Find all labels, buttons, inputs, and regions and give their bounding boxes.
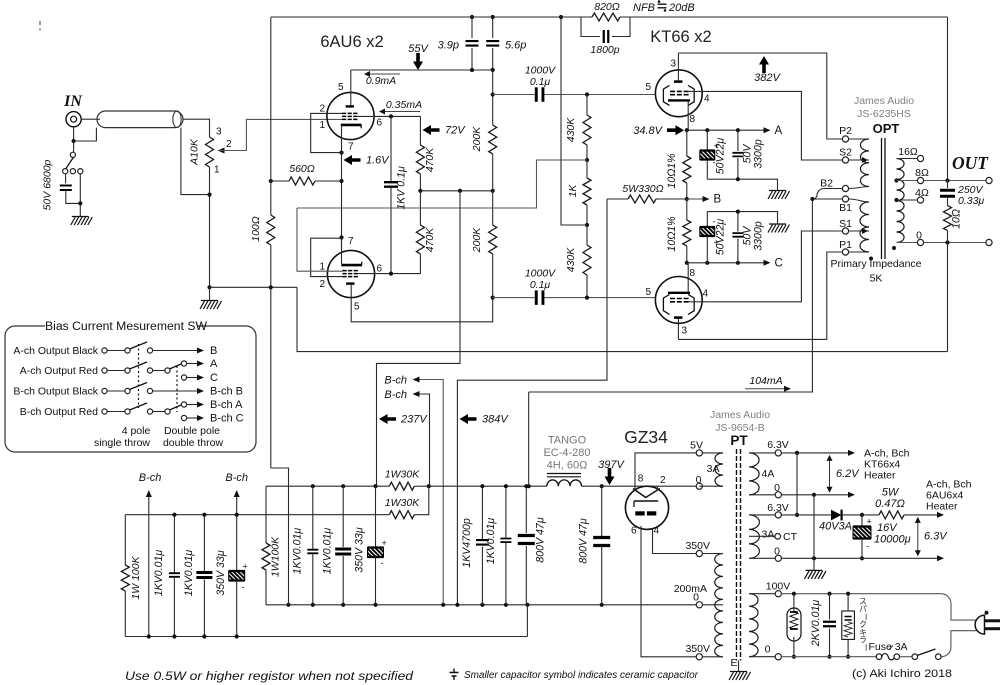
OPT secondary coil — [897, 159, 905, 243]
svg-text:C: C — [775, 258, 783, 270]
junction screen bypass — [389, 114, 393, 118]
svg-text:1W100K: 1W100K — [270, 536, 282, 577]
junction phasing link — [795, 513, 799, 517]
terminal OUT+ — [986, 177, 992, 183]
coil 6.3V-2 winding — [749, 515, 759, 558]
wire lamp bottom junction — [792, 655, 796, 659]
svg-text:2: 2 — [226, 139, 232, 150]
wire NFB drop — [947, 17, 949, 181]
wire 100R bottom — [270, 245, 272, 468]
svg-text:10Ω: 10Ω — [951, 209, 963, 229]
wire 55V plate line — [351, 69, 493, 71]
svg-text:6: 6 — [377, 264, 383, 275]
wire 6.3V-2 hot — [781, 514, 831, 516]
ground input switch — [72, 216, 89, 218]
wire V2 screen pin6 — [357, 273, 420, 275]
svg-text:430K: 430K — [565, 247, 577, 273]
svg-text:560Ω: 560Ω — [289, 163, 315, 175]
wire B-ch B+ link — [420, 394, 430, 486]
wire 100R top — [270, 17, 272, 215]
wire cap group upper to ground — [707, 179, 777, 190]
tube V3 KT66 upper envelope — [655, 70, 702, 117]
wire V2 plate down — [351, 285, 493, 322]
wire sleeve to shield — [74, 128, 97, 141]
junction 0 zobel — [945, 240, 949, 244]
svg-text:350V 33μ: 350V 33μ — [354, 527, 366, 572]
terminal 4R — [917, 197, 923, 203]
resistor 5W330R — [607, 198, 628, 200]
svg-text:double throw: double throw — [163, 437, 224, 449]
svg-text:CT: CT — [783, 531, 798, 543]
V5 cathode bar — [634, 500, 658, 502]
junction 3300p lower top — [736, 210, 740, 214]
junction 430K upper top — [585, 92, 589, 96]
svg-text:OPT: OPT — [873, 121, 900, 136]
svg-text:34.8V: 34.8V — [633, 125, 663, 137]
resistor 1W100K bank2 — [265, 486, 267, 543]
svg-text:4H, 60Ω: 4H, 60Ω — [547, 460, 588, 472]
shielded cable — [97, 111, 183, 128]
terminal 0 OPT — [917, 239, 923, 245]
RCA jack J1 — [66, 112, 81, 127]
rail bank1 ground — [125, 636, 527, 638]
svg-text:3: 3 — [682, 326, 688, 337]
svg-text:237V: 237V — [400, 414, 428, 426]
coil 6.3V-1 winding — [749, 453, 759, 495]
wire switch right contact down — [79, 174, 81, 216]
svg-text:8: 8 — [690, 114, 696, 125]
svg-text:3300p: 3300p — [753, 221, 765, 251]
svg-text:50V22μ: 50V22μ — [715, 138, 727, 175]
svg-text:350V: 350V — [685, 643, 710, 655]
svg-text:Smaller capacitor symbol indic: Smaller capacitor symbol indicates ceram… — [464, 670, 699, 681]
junction heater cold — [812, 493, 816, 497]
terminal 0 HV — [696, 602, 702, 608]
junction jack sleeve — [72, 139, 76, 143]
svg-text:B-ch Output Black: B-ch Output Black — [13, 386, 98, 398]
svg-text:P2: P2 — [839, 125, 852, 137]
switch S4 4-pole — [102, 409, 107, 414]
wire P2 to coil — [849, 138, 869, 140]
ground pot — [209, 287, 211, 300]
junction 560R right — [339, 179, 343, 183]
svg-text:800V 47μ: 800V 47μ — [535, 517, 547, 562]
capacitor 1800p — [581, 17, 600, 37]
junction lamp top — [792, 592, 796, 596]
svg-text:384V: 384V — [482, 414, 509, 426]
wire ground bus — [297, 287, 948, 351]
svg-text:A: A — [775, 125, 783, 137]
wire P1 to coil — [849, 251, 869, 253]
terminal 6.3V-2 — [775, 512, 781, 518]
svg-text:3: 3 — [670, 59, 676, 70]
arrow 0.35mA — [380, 111, 420, 113]
bias measurement switch box — [5, 326, 256, 452]
svg-text:2KV0.01μ: 2KV0.01μ — [810, 600, 822, 648]
arrow 72V — [423, 125, 440, 135]
svg-text:2: 2 — [660, 475, 666, 486]
capacitor 5.6p — [492, 17, 494, 38]
svg-text:1W 100K: 1W 100K — [130, 555, 142, 599]
svg-text:0.47Ω: 0.47Ω — [875, 498, 905, 510]
svg-text:KT66 x2: KT66 x2 — [650, 28, 711, 46]
svg-text:1K: 1K — [567, 184, 579, 198]
wire phasing link — [796, 453, 798, 515]
svg-text:6.3V: 6.3V — [767, 439, 789, 451]
svg-text:100Ω: 100Ω — [250, 216, 262, 242]
wire pin2 V5 — [657, 486, 659, 489]
svg-text:4: 4 — [654, 526, 660, 537]
pilot lamp — [787, 608, 801, 641]
arrow 0.9mA — [365, 73, 400, 75]
V1 grid dashes — [342, 112, 357, 114]
wire screen to 470K — [419, 116, 421, 145]
svg-text:5: 5 — [645, 287, 651, 298]
wire heater ground drop — [813, 495, 815, 570]
terminal B2 — [842, 185, 848, 191]
potentiometer A10K — [206, 137, 214, 167]
svg-text:GZ34: GZ34 — [624, 427, 668, 447]
svg-text:-: - — [866, 541, 869, 551]
resistor 820R — [592, 13, 620, 21]
svg-text:-: - — [242, 582, 245, 592]
resistor 10R zobel — [944, 206, 952, 231]
junction rail 200K — [491, 189, 495, 193]
svg-text:200mA: 200mA — [674, 583, 707, 595]
stray mark top left — [39, 21, 41, 25]
svg-text:1W30K: 1W30K — [385, 497, 420, 509]
V5 filament chevron — [633, 489, 660, 498]
wire 0 line — [897, 242, 986, 244]
capacitor 1KV0.01u bank2 ceramic — [312, 486, 314, 549]
svg-text:0.1μ: 0.1μ — [530, 76, 551, 88]
wire fuse to switch — [900, 656, 912, 658]
svg-text:4 pole: 4 pole — [122, 425, 151, 437]
svg-text:0.35mA: 0.35mA — [386, 99, 422, 111]
arrow B-ch 2 — [413, 391, 420, 397]
junction spark killer top — [846, 592, 850, 596]
junction 3300p upper — [736, 128, 740, 132]
svg-text:72V: 72V — [445, 125, 466, 137]
wire V2 grid feed — [297, 208, 343, 271]
svg-text:A-ch Output Black: A-ch Output Black — [13, 345, 98, 357]
terminal 0 100V — [775, 654, 781, 660]
arrow to B — [687, 198, 704, 200]
arrow 34.8V — [667, 125, 684, 135]
svg-text:10Ω1%: 10Ω1% — [666, 153, 678, 188]
junction V2 cathode top — [339, 235, 343, 239]
junction B+ node — [810, 197, 814, 201]
svg-text:B-ch: B-ch — [225, 472, 248, 484]
svg-text:James Audio: James Audio — [854, 95, 914, 107]
junction 0.01u rail — [504, 484, 508, 488]
svg-text:1KV0.01μ: 1KV0.01μ — [292, 528, 304, 575]
junction 800V47u second rail — [600, 484, 604, 488]
svg-text:1W30K: 1W30K — [385, 469, 420, 481]
resistor 560R — [289, 177, 315, 185]
svg-text:NFB: NFB — [633, 2, 655, 14]
svg-text:1000V: 1000V — [525, 65, 556, 77]
svg-text:0.1μ: 0.1μ — [530, 279, 551, 291]
svg-text:+: + — [867, 517, 872, 527]
arrow 397V — [605, 468, 615, 485]
wire divider tap to V2 grid — [297, 160, 587, 208]
wire 6.3V-1 heater hot — [781, 452, 849, 454]
wire coupling lower — [493, 297, 535, 299]
arrow 382V — [759, 56, 769, 73]
junction 8R tap — [894, 178, 898, 182]
junction bank1 gnd dots — [147, 634, 151, 638]
wire zobel to 0 — [947, 231, 949, 243]
svg-text:3A: 3A — [762, 529, 775, 541]
svg-text:Primary Impedance: Primary Impedance — [830, 258, 921, 270]
svg-text:200K: 200K — [471, 227, 483, 254]
svg-text:3300p: 3300p — [753, 139, 765, 169]
capacitor 800V47u first — [525, 486, 527, 533]
wire 237V riser — [377, 191, 461, 486]
wire jack to cable core — [81, 118, 100, 120]
svg-text:EC-4-280: EC-4-280 — [543, 447, 590, 459]
terminal B1 — [842, 196, 848, 202]
wire B1 to node — [812, 198, 842, 200]
V5 plates — [635, 511, 644, 515]
wire jack sleeve down — [73, 127, 75, 141]
wire pin8 V5 — [635, 453, 697, 491]
svg-text:single throw: single throw — [94, 437, 150, 449]
wire B+ riser — [529, 199, 813, 392]
ground PT earth — [738, 661, 740, 672]
svg-text:1KV4700p: 1KV4700p — [461, 518, 473, 568]
choke TANGO EC-4-280 — [547, 474, 581, 477]
svg-text:430K: 430K — [565, 117, 577, 143]
tube V5 GZ34 envelope — [625, 486, 668, 529]
junction divider tap — [585, 158, 589, 162]
arrow B-ch bank1 B+ — [236, 492, 238, 514]
arrow 1.6V — [344, 155, 361, 165]
terminal 16R — [917, 155, 923, 161]
wire V4 screen to S1 — [689, 301, 702, 303]
svg-text:5: 5 — [354, 302, 360, 313]
wire 470K to rail — [419, 174, 421, 191]
terminal S2 — [842, 157, 848, 163]
capacitor 50V 3300p lower — [737, 212, 739, 232]
junction diode out — [860, 513, 864, 517]
OPT core — [881, 138, 883, 259]
svg-text:5: 5 — [645, 82, 651, 93]
svg-text:A10K: A10K — [189, 138, 201, 166]
svg-text:B: B — [210, 345, 217, 357]
wire 8R line — [897, 180, 986, 182]
V3 grid dashes — [670, 90, 689, 92]
row2 DPDT — [153, 370, 165, 372]
wire S2 to coil — [849, 159, 869, 161]
capacitor 16V 10000u — [861, 515, 863, 527]
wire pin6 V5 to 350V lower — [641, 526, 697, 657]
wire V3 screen to S2 — [689, 90, 702, 92]
junction 560R left — [269, 179, 273, 183]
arrow to C — [764, 260, 771, 266]
V1 grid bracket pins 1-2 — [311, 113, 342, 152]
svg-text:C: C — [210, 372, 218, 384]
switch S2 4-pole — [102, 368, 107, 373]
junction 5.6p top — [491, 15, 495, 19]
wire B-ch gnd link bank1 — [148, 515, 150, 637]
V2 plate — [346, 282, 354, 284]
svg-text:-: - — [381, 558, 384, 568]
svg-text:A-ch Output Red: A-ch Output Red — [20, 365, 98, 377]
resistor 1W30K upper — [414, 485, 429, 487]
wire cathode node C — [687, 262, 765, 264]
arrow B-ch bank1 gnd — [148, 492, 150, 515]
wire input ground drop — [271, 468, 289, 605]
junction 800V47u first rail — [524, 484, 528, 488]
switch SW1 input ground — [73, 141, 75, 152]
terminal 0 6.3V-2 — [775, 555, 781, 561]
V1 plate — [346, 105, 354, 107]
svg-text:10Ω1%: 10Ω1% — [666, 216, 678, 251]
wire 6.3V-1 heater cold — [781, 494, 849, 496]
svg-text:40V3A: 40V3A — [819, 521, 852, 533]
V4 cathode — [668, 292, 690, 294]
resistor 10R 1% lower — [686, 199, 688, 220]
junction 3300p lower — [736, 261, 740, 265]
svg-text:8: 8 — [638, 474, 644, 485]
resistor 1W100K bank1 — [124, 515, 126, 565]
svg-text:5: 5 — [338, 82, 344, 93]
junction switch ground — [78, 201, 82, 205]
rail 237V node — [420, 190, 493, 192]
V3 beam plates — [663, 85, 669, 105]
terminal S1 — [842, 228, 848, 234]
svg-text:0: 0 — [765, 644, 771, 656]
svg-text:JS-6235HS: JS-6235HS — [857, 108, 911, 120]
junction pot bottom shield — [207, 193, 211, 197]
wire V1 cathode stub — [341, 126, 343, 152]
row4 DPDT — [153, 411, 165, 413]
junction 470K rail — [418, 189, 422, 193]
wire plate chain — [492, 70, 494, 125]
V4 plate — [674, 316, 682, 319]
capacitor 800V47u second — [601, 486, 603, 537]
junction coupling tap upper — [491, 92, 495, 96]
capacitor 1KV4700p — [481, 486, 483, 539]
resistor 430K lower — [586, 225, 588, 245]
svg-text:104mA: 104mA — [749, 375, 782, 387]
junction 3300p upper bottom — [736, 177, 740, 181]
svg-text:800V 47μ: 800V 47μ — [578, 518, 590, 563]
arrow to A — [764, 127, 771, 133]
wire 330R return — [457, 199, 607, 605]
V2 cathode — [341, 264, 362, 267]
svg-text:B-ch: B-ch — [384, 389, 407, 401]
arrow 104mA — [745, 388, 785, 390]
arrow 384V — [460, 414, 477, 424]
capacitor 250V 0.33u zobel — [947, 181, 949, 189]
wire coupling upper — [493, 94, 535, 96]
ground KT66 upper caps — [769, 190, 786, 192]
wire V2 cathode stub — [341, 238, 343, 265]
svg-text:Heater: Heater — [926, 501, 958, 513]
junction heater2 cold — [812, 556, 816, 560]
arrow 55V — [413, 53, 423, 70]
wire V4 cathode pin8 — [687, 263, 689, 293]
svg-text:4: 4 — [703, 289, 709, 300]
capacitor 2KV0.01u — [829, 594, 831, 620]
svg-text:55V: 55V — [408, 43, 429, 55]
V4 grid dashes — [670, 301, 689, 303]
capacitor 1000V 0.1u upper — [535, 87, 538, 102]
svg-text:1KV0.01μ: 1KV0.01μ — [485, 518, 497, 565]
terminal 350V upper — [696, 550, 702, 556]
terminal CT — [775, 534, 781, 540]
junction bank2 ceramic — [311, 484, 315, 488]
junction 5.6p bottom plate node — [491, 68, 495, 72]
junction V3 cathode node — [685, 128, 689, 132]
svg-text:(c) Aki Ichiro 2018: (c) Aki Ichiro 2018 — [852, 668, 952, 680]
junction 3.9p bottom — [470, 68, 474, 72]
svg-text:3.9p: 3.9p — [438, 40, 459, 52]
OPT phase dot secondary — [892, 246, 896, 250]
svg-text:6: 6 — [631, 526, 637, 537]
wire row3 to B-ch B — [153, 390, 198, 392]
svg-text:50V 6800p: 50V 6800p — [42, 159, 54, 210]
wire NFB top — [271, 16, 592, 18]
junction rail x460 — [458, 189, 462, 193]
svg-text:0.33μ: 0.33μ — [958, 195, 984, 207]
arrow 237V — [379, 414, 396, 424]
svg-text:820Ω: 820Ω — [594, 1, 620, 13]
V2 bracket pins 1-2 — [311, 238, 343, 276]
tube V1 6AU6 upper envelope — [327, 92, 374, 139]
svg-text:1KV0.01μ: 1KV0.01μ — [183, 550, 195, 597]
wiper arrow — [218, 148, 225, 154]
measure 6.2V — [829, 457, 831, 492]
wire AC hot — [781, 593, 941, 595]
V3 cathode — [668, 99, 690, 101]
svg-text:1: 1 — [319, 120, 325, 131]
spark killer — [847, 594, 849, 611]
measure 6.3V — [917, 519, 919, 555]
wire OUT ground riser — [947, 243, 949, 352]
junction node B — [685, 197, 689, 201]
svg-text:200K: 200K — [471, 126, 483, 153]
wire cap to junction — [66, 190, 81, 203]
dotted gang link 4-pole — [138, 344, 140, 408]
ground heater — [806, 569, 823, 571]
svg-text:3: 3 — [216, 127, 222, 138]
wire shield drop — [181, 128, 210, 195]
terminal 100V — [775, 591, 781, 597]
resistor 200K lower — [492, 191, 494, 225]
svg-text:B-ch C: B-ch C — [210, 413, 244, 425]
junction 1K bottom NFB — [585, 223, 589, 227]
svg-text:+: + — [382, 538, 387, 548]
svg-text:470K: 470K — [424, 147, 436, 173]
svg-text:1800p: 1800p — [590, 44, 619, 56]
wire 4R tap — [897, 199, 918, 201]
svg-text:470K: 470K — [424, 227, 436, 253]
junction B+ riser rail — [527, 484, 531, 488]
wire cathode chain down — [341, 152, 343, 251]
wire cable core to pot — [183, 119, 210, 137]
junction 237V cap — [373, 484, 377, 488]
resistor 430K upper — [586, 95, 588, 116]
svg-text:16V: 16V — [877, 522, 898, 534]
wire 6.3V-2 cold — [781, 557, 938, 559]
svg-text:James Audio: James Audio — [710, 409, 770, 421]
resistor 470K upper — [416, 145, 424, 174]
svg-text:B1: B1 — [839, 202, 852, 214]
